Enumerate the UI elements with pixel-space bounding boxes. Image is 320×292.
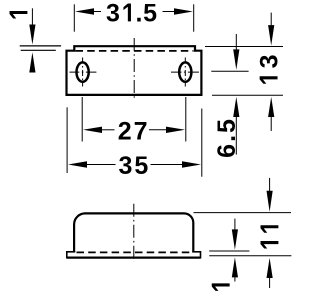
dimension 1 (plate thickness): top arrow (234, 219, 236, 230)
bottom right: body-top extension line (194, 212, 292, 214)
dimension 35: left extension line (66, 107, 68, 173)
top view: right slot hole (179, 62, 191, 81)
svg-text:27: 27 (118, 117, 150, 145)
dimension 31.5: value label (106, 0, 159, 27)
right side: part-bottom extension line (212, 94, 283, 96)
dimension 31.5: left arrow (75, 8, 94, 14)
side view: body outline (74, 213, 193, 252)
top view: vertical centerline (133, 38, 135, 98)
dimension 1 (plate thickness): bottom arrow (232, 257, 238, 277)
svg-text:6.5: 6.5 (213, 117, 241, 158)
right side: hole-center extension line (211, 70, 248, 72)
side view: vertical centerline (133, 204, 135, 262)
dimension 31.5: left extension line (73, 4, 75, 31)
top view: right hole horizontal centerline (171, 71, 200, 73)
svg-text:35: 35 (119, 152, 151, 180)
dimension 13: top arrow (270, 13, 272, 26)
dimension 27: left arrow (83, 127, 102, 133)
dimension 13: value label (256, 52, 284, 83)
top view: right hole vertical centerline (184, 58, 186, 87)
side view: base plate left end (66, 251, 68, 259)
dimension 6.5: bottom arrow (233, 97, 239, 117)
bottom right: plate-top tick (209, 250, 249, 252)
top view: left hole vertical centerline (82, 58, 84, 87)
dimension 11: value label (261, 225, 279, 248)
side view: base plate top left segment (67, 251, 75, 253)
dimension 11: bottom arrow (267, 258, 273, 278)
top view: hidden edge dashed line (76, 50, 194, 52)
dimension 1 (lip height): value label (10, 11, 28, 19)
dimension 31.5: right extension line (193, 4, 195, 31)
svg-text:3: 3 (256, 52, 284, 68)
dimension 27: right arrow (166, 127, 185, 133)
top view: left hole horizontal centerline (70, 71, 97, 73)
side view: base plate right end (200, 251, 202, 259)
svg-text:3: 3 (106, 0, 122, 27)
dimension 1 (lip height): lower tick (21, 49, 56, 51)
dimension 1 (lip height): top arrow (31, 8, 33, 25)
dimension 6.5: top arrow (235, 34, 237, 50)
top view: left slot hole (77, 62, 89, 81)
side view: base plate bottom edge (67, 257, 201, 259)
side view: base plate hidden top edge dashed (77, 251, 193, 253)
dimension 35: right arrow (182, 161, 201, 167)
dimension 27: right extension line (185, 97, 187, 142)
dimension 1 (lip height): bottom arrow (29, 52, 35, 72)
dimension 31.5: right arrow (174, 8, 193, 14)
svg-text:5: 5 (143, 0, 159, 27)
top view: plate body outline (67, 46, 202, 95)
side view: base plate top right segment (192, 251, 200, 253)
dimension 11: top arrow (269, 178, 271, 192)
dimension 1 (lip height): upper tick (20, 45, 61, 47)
dimension 13: bottom arrow (268, 97, 274, 117)
dimension 27: left extension line (81, 97, 83, 142)
dimension 35: right extension line (201, 109, 203, 177)
right side: lip-top extension line (205, 46, 283, 48)
bottom right: plate-bottom long extension line (209, 255, 291, 257)
dimension 1 (plate thickness): value label (212, 283, 230, 291)
dimension 35: left arrow (68, 161, 87, 167)
